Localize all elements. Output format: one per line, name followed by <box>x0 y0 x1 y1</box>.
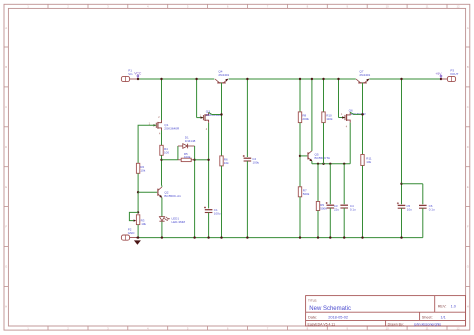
title block texts <box>308 299 456 327</box>
svg-text:G: G <box>5 265 7 269</box>
svg-text:10u: 10u <box>407 208 412 212</box>
wire branch to C6 <box>402 183 423 185</box>
resistor R5 100k <box>178 158 195 161</box>
svg-text:12: 12 <box>456 326 460 330</box>
wire to Q5 base <box>300 155 307 157</box>
wire Q3 drain up-right to Q4 base line <box>209 112 222 114</box>
junction P1/VCC on rail <box>137 78 139 80</box>
junction rail x161.5 <box>160 78 162 80</box>
svg-text:10: 10 <box>386 326 390 330</box>
svg-text:B: B <box>467 65 469 69</box>
resistor R2 10k <box>136 163 139 173</box>
LED LED1 LED-3MM <box>159 217 170 222</box>
wire LED1 to ground rail <box>161 222 163 238</box>
transistor Q6 2SK3640R <box>342 112 350 122</box>
resistor R9 500k <box>316 202 319 211</box>
wire C3 to ground rail <box>329 208 331 238</box>
junction rail x401.5 <box>400 78 402 80</box>
svg-text:VCC: VCC <box>134 71 142 75</box>
wire node to D1/R5 pair <box>162 159 178 161</box>
wire top power rail <box>138 78 441 80</box>
ground symbol <box>134 240 141 244</box>
svg-text:+9V: +9V <box>435 72 442 76</box>
svg-text:VOUT: VOUT <box>450 72 459 76</box>
wire branch down to C6 <box>422 184 424 205</box>
wire R9 to ground rail <box>317 211 319 238</box>
svg-text:1N4148: 1N4148 <box>185 139 196 143</box>
wire Q6 source down to bus <box>349 123 351 164</box>
svg-text:10: 10 <box>386 5 390 9</box>
svg-text:New Schematic: New Schematic <box>309 306 351 312</box>
junction C5/C6 branch <box>400 183 402 185</box>
junction R3 top <box>137 211 139 213</box>
svg-text:G: G <box>467 265 469 269</box>
junction rail x196.6 <box>195 78 197 80</box>
junction pair/ground rail <box>193 236 195 238</box>
junction rail x338.5 <box>337 78 339 80</box>
svg-text:C: C <box>467 105 469 109</box>
svg-text:0.1u: 0.1u <box>429 208 435 212</box>
resistor R4 100 <box>160 145 163 155</box>
svg-text:EasyEDA V5.4.11: EasyEDA V5.4.11 <box>308 322 336 326</box>
junction R6/rail <box>220 236 222 238</box>
capacitor C6 0.1u <box>419 205 427 208</box>
wire to Q2 base <box>138 191 157 193</box>
wire R6 to ground rail <box>221 166 223 238</box>
resistor R11 10k <box>361 155 364 166</box>
svg-text:C: C <box>5 105 7 109</box>
junction Q2 base node <box>137 191 139 193</box>
wire rail to Q6 gate <box>338 79 340 118</box>
svg-text:2SK3640R: 2SK3640R <box>164 127 180 131</box>
transistor Q4 2N4401 <box>215 79 228 83</box>
wire Q4 base down to R6 <box>221 83 223 156</box>
junction C1/rail <box>207 236 209 238</box>
svg-text:10k: 10k <box>366 160 371 164</box>
junction rail x247.4 <box>246 78 248 80</box>
svg-text:D: D <box>5 145 7 149</box>
wire rail to Q1 drain <box>161 79 163 120</box>
junction R7/rail <box>299 236 301 238</box>
svg-text:1.0: 1.0 <box>451 305 456 309</box>
junction Q3 source / pair node <box>207 159 209 161</box>
svg-text:10k: 10k <box>141 222 146 226</box>
wire C4 to ground rail <box>343 208 345 238</box>
wire bus to R9 <box>317 164 319 202</box>
title block <box>306 296 466 326</box>
junction Q7 base / Q6 drain <box>361 113 363 115</box>
svg-text:12: 12 <box>456 5 460 9</box>
junction bus/C3 <box>329 163 331 165</box>
capacitor C4 0.1u <box>340 205 348 208</box>
svg-text:Date:: Date: <box>308 315 317 320</box>
transistor Q7 2N4401 <box>356 79 369 83</box>
wire R8 to R7 <box>299 123 301 187</box>
wire C6 to ground rail end <box>422 208 424 237</box>
resistor R10 110k <box>322 112 325 123</box>
svg-text:Sheet:: Sheet: <box>422 316 433 320</box>
transistor Q3 2SK3640R <box>201 112 209 122</box>
svg-text:10k: 10k <box>224 161 229 165</box>
svg-text:D: D <box>467 145 469 149</box>
svg-text:LED-3MM: LED-3MM <box>172 220 186 224</box>
transistor Q5 BC550CTA <box>308 151 312 162</box>
wire Q1 source to R4 <box>161 130 163 145</box>
resistor R6 10k <box>220 156 223 166</box>
capacitor C5 10u <box>397 202 405 208</box>
wire Q5 emitter to bus <box>311 161 313 164</box>
wire C5 to ground rail <box>401 208 403 237</box>
wire rail to R8 <box>299 79 301 112</box>
svg-text:200k: 200k <box>302 117 309 121</box>
junction R9/rail <box>317 236 319 238</box>
svg-text:A: A <box>467 26 469 30</box>
wire emitter bus <box>312 163 350 165</box>
junction bus/R9 <box>317 163 319 165</box>
junction +9V / P3 pin <box>440 78 442 80</box>
wire rail to Q3 gate <box>196 79 198 118</box>
junction C3/rail <box>329 236 331 238</box>
svg-text:REV:: REV: <box>438 305 447 309</box>
junction C5/rail <box>400 236 402 238</box>
wire R7 to ground rail <box>299 197 301 238</box>
junction R3/rail <box>137 236 139 238</box>
transistor Q2 BC550C-A1 <box>158 187 162 198</box>
svg-text:E: E <box>467 185 469 189</box>
svg-text:2018-05-02: 2018-05-02 <box>328 315 348 320</box>
svg-text:Drawn By:: Drawn By: <box>388 322 404 326</box>
transistor Q1 2SK3640R <box>154 120 162 130</box>
svg-text:0.1u: 0.1u <box>350 207 356 211</box>
wire D1 cathode down to R5 right node <box>194 146 196 238</box>
junction bus/R10 <box>322 163 324 165</box>
svg-text:100u: 100u <box>214 212 221 216</box>
wire pair node to Q3 source line <box>195 159 209 161</box>
wire rail to R10 <box>323 79 325 112</box>
junction bus/C4 <box>343 163 345 165</box>
wire Q6 drain up-right to Q7 base line <box>350 112 362 114</box>
junction Q5 base node <box>299 155 301 157</box>
junction R11/rail <box>361 236 363 238</box>
diode D1 1N4148 <box>178 144 195 160</box>
svg-text:500k: 500k <box>320 206 327 210</box>
wire Q2 collector <box>161 186 163 187</box>
wire R10 to bus <box>323 123 325 164</box>
svg-text:100: 100 <box>164 150 169 154</box>
svg-text:F: F <box>5 225 7 229</box>
junction rail x323.5 <box>322 78 324 80</box>
svg-text:500k: 500k <box>303 192 310 196</box>
potentiometer R3 10k <box>129 212 139 224</box>
svg-text:GND: GND <box>128 231 136 235</box>
net flag VCC <box>134 71 142 79</box>
wire R2 to R3 <box>137 173 139 212</box>
wire rail to C2 <box>246 79 248 157</box>
svg-text:11: 11 <box>426 326 429 330</box>
svg-text:Vin: Vin <box>128 72 133 76</box>
svg-text:100k: 100k <box>184 155 191 159</box>
junction C4/rail <box>343 236 345 238</box>
wire Q3 source down <box>208 123 210 209</box>
wire bus to C4 <box>343 164 345 204</box>
wire bus to C3 <box>329 164 331 204</box>
svg-text:john.kissonerghis: john.kissonerghis <box>413 322 441 326</box>
wire Q2 emitter to LED1 <box>161 198 163 217</box>
wire R4 to Q2 collector <box>161 155 163 185</box>
capacitor C2 100u <box>243 155 251 161</box>
junction Q4 base / Q3 drain <box>220 113 222 115</box>
connector P1 <box>121 76 138 81</box>
svg-text:22u: 22u <box>334 207 339 211</box>
resistor R7 500k <box>298 187 301 197</box>
junction Q5 collector/rail <box>311 78 313 80</box>
svg-text:TITLE:: TITLE: <box>308 299 317 303</box>
connector P3 <box>441 76 456 81</box>
wire R11 to ground rail <box>362 166 364 238</box>
wire rail to C5 <box>401 79 403 204</box>
svg-text:F: F <box>467 225 469 229</box>
wire C2 to ground rail <box>246 161 248 238</box>
svg-text:10k: 10k <box>140 169 145 173</box>
svg-text:BC550C-A1: BC550C-A1 <box>164 194 181 198</box>
wire Q7 base down to R11 <box>362 83 364 155</box>
capacitor C3 22u <box>326 202 334 208</box>
connector P2 <box>121 235 137 240</box>
svg-text:1/1: 1/1 <box>441 316 446 320</box>
wire Q5 collector to rail <box>311 79 313 151</box>
resistor R8 200k <box>298 112 301 123</box>
svg-text:E: E <box>5 185 7 189</box>
svg-text:H: H <box>5 305 7 309</box>
svg-text:110k: 110k <box>326 117 333 121</box>
wire C1 to ground rail <box>208 213 210 238</box>
junction LED1/rail <box>161 236 163 238</box>
wire R3 to ground rail <box>137 225 139 238</box>
wire Q1 gate to left vertical <box>138 125 156 163</box>
net flag +9V <box>435 72 442 79</box>
junction D1/R5 right node <box>193 159 195 161</box>
svg-text:H: H <box>467 305 469 309</box>
svg-text:BC550CTA: BC550CTA <box>315 156 331 160</box>
capacitor C1 100u <box>204 207 212 213</box>
svg-text:B: B <box>5 65 7 69</box>
svg-text:A: A <box>5 26 7 30</box>
junction rail x300 <box>299 78 301 80</box>
junction C2/rail <box>246 236 248 238</box>
svg-text:100u: 100u <box>253 160 260 164</box>
wire bottom ground rail <box>137 237 422 239</box>
svg-text:2N4401: 2N4401 <box>359 73 370 77</box>
svg-text:2N4401: 2N4401 <box>218 73 229 77</box>
svg-text:11: 11 <box>426 5 429 9</box>
junction P2 pin <box>136 237 138 239</box>
junction R4/Q2/D1 node <box>160 159 162 161</box>
